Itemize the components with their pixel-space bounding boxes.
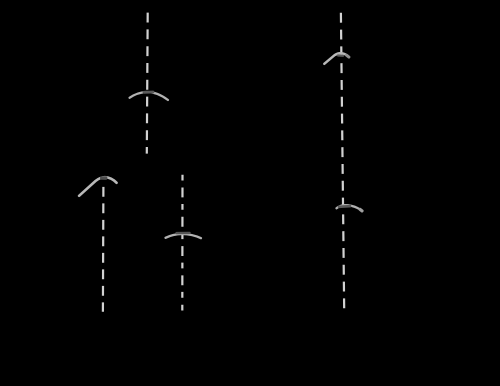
arrowhead of A2 <box>347 55 349 57</box>
arrowhead of A1 <box>144 91 153 94</box>
arrow A4 (curved arrow crossing W4) <box>166 234 202 238</box>
wire W4 (dashed control line, lower middle) <box>181 175 183 311</box>
arrowhead barb of A2 <box>338 54 343 56</box>
wire W2 (tall dashed control line, right) <box>341 13 344 311</box>
arrowhead of A4 <box>177 232 190 235</box>
wire W3 (dashed control line, lower left) <box>102 187 105 312</box>
arrowhead tip of A3 <box>360 210 362 211</box>
arrow A3 (curved arrow crossing W2, middle) <box>337 205 362 211</box>
arrow A5 (curved arrow at top of W3) <box>79 177 117 196</box>
arrow A2 (curved arrow over top of W2) <box>324 53 348 64</box>
wire W1 (dashed control line, upper left) <box>146 13 149 154</box>
arrowhead of A3 <box>339 205 350 208</box>
arrowhead of A5 <box>102 176 106 180</box>
arrow A1 (curved arrow crossing W1) <box>130 92 169 100</box>
